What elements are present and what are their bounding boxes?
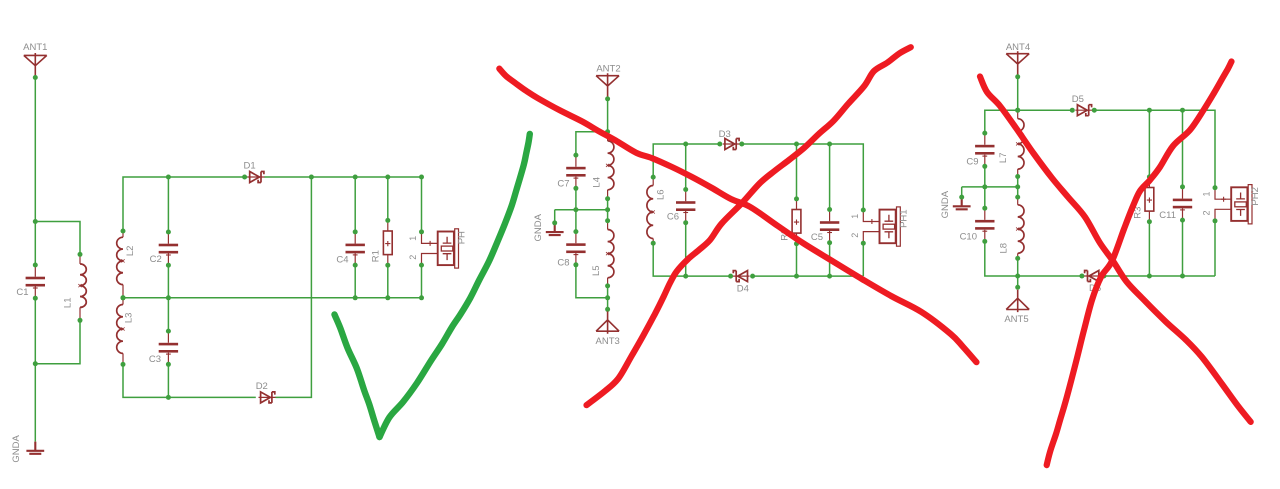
wire C2 bottom	[167, 265, 169, 298]
ground GNDA	[940, 190, 971, 218]
wire C5 bottom	[829, 243, 831, 276]
wire R3 top	[1148, 110, 1150, 177]
wire C8 to bottom node	[576, 265, 608, 298]
svg-text:C1: C1	[16, 287, 28, 298]
junction L7 L8 node	[1015, 184, 1020, 189]
wire ANT2 down	[607, 97, 609, 132]
wire to C7	[576, 132, 608, 155]
wire jack branch upper	[421, 177, 423, 232]
svg-text:D3: D3	[719, 129, 731, 140]
svg-text:C7: C7	[557, 179, 569, 190]
antenna ANT2	[596, 63, 621, 96]
wire bottom rail to D6	[1018, 275, 1083, 277]
capacitor C1	[16, 263, 45, 301]
svg-text:L2: L2	[125, 246, 136, 257]
svg-text:L5: L5	[591, 265, 602, 276]
svg-text:2: 2	[408, 255, 418, 260]
wire L5 to ANT3	[607, 286, 609, 309]
inductor L2	[117, 229, 136, 301]
inductor L5	[591, 218, 614, 288]
svg-text:C4: C4	[336, 254, 348, 265]
wire C3 bottom	[167, 364, 169, 397]
wire loop right side lower	[862, 244, 864, 276]
wire top to C9	[985, 110, 1018, 133]
wire R1 bottom	[387, 265, 389, 298]
diode D6	[1079, 271, 1106, 295]
svg-text:C9: C9	[966, 156, 978, 167]
wire bottom rail right of D6	[1103, 275, 1215, 277]
capacitor C5	[811, 207, 839, 245]
svg-text:D2: D2	[256, 381, 268, 392]
wire R3 bottom	[1148, 222, 1150, 276]
diode D3	[717, 129, 744, 149]
wire R2 top	[796, 144, 798, 199]
wire C11 top	[1182, 110, 1184, 187]
svg-text:ANT5: ANT5	[1004, 314, 1028, 325]
wire loop top left of D3	[653, 144, 720, 177]
capacitor C3	[149, 329, 178, 367]
wire bottom rail left of D2	[123, 364, 256, 397]
junction dots ANT3 net	[605, 295, 610, 312]
svg-text:C3: C3	[149, 354, 161, 365]
inductor L3	[117, 295, 135, 367]
wire loop top right side	[742, 144, 864, 210]
wire to GNDA c3	[961, 187, 963, 197]
wire to GNDA	[554, 210, 556, 223]
capacitor C7	[557, 153, 585, 191]
wire C6 top	[685, 144, 687, 190]
svg-text:1: 1	[408, 236, 418, 241]
capacitor C4	[336, 229, 365, 267]
junction L4 L5 node	[605, 207, 610, 212]
junction dots top rail	[166, 175, 424, 180]
resistor R1	[371, 218, 392, 268]
junction dots top rail c3	[1015, 108, 1185, 113]
wire right side lower c3	[1214, 221, 1216, 276]
svg-text:GNDA: GNDA	[940, 190, 951, 218]
junction dot bottom rail	[166, 395, 171, 400]
wire C2 top	[167, 177, 169, 232]
svg-text:L1: L1	[63, 298, 74, 309]
svg-text:C11: C11	[1159, 210, 1176, 221]
wire top rail right side	[1094, 110, 1215, 188]
capacitor C2	[150, 230, 178, 268]
svg-text:L6: L6	[656, 189, 667, 200]
wire L7 to L8	[1017, 177, 1019, 198]
svg-text:GNDA: GNDA	[533, 213, 544, 241]
wire C3 top	[167, 298, 169, 331]
wire loop bottom left of D4	[653, 243, 731, 276]
svg-text:C8: C8	[557, 258, 569, 269]
svg-text:L7: L7	[998, 153, 1009, 164]
wire C11 bottom	[1182, 220, 1184, 276]
phone jack PH	[408, 229, 468, 268]
wire top rail left of D1	[123, 177, 248, 231]
diode D2	[256, 381, 276, 403]
junction C9 C10 node	[982, 184, 987, 189]
wire gnd tap row	[555, 209, 608, 211]
junction C7 C8 node	[573, 207, 578, 212]
svg-text:D5: D5	[1072, 94, 1084, 105]
resistor R3	[1133, 174, 1154, 224]
svg-text:D4: D4	[737, 284, 749, 295]
red X stroke over middle circuit ascending	[587, 47, 911, 405]
inductor L6	[647, 175, 667, 246]
capacitor C6	[667, 187, 696, 225]
red X stroke over right circuit ascending	[1047, 62, 1232, 466]
green check mark up stroke	[380, 134, 530, 437]
antenna ANT1	[23, 42, 47, 76]
diode D4	[728, 271, 755, 295]
capacitor C8	[557, 229, 585, 269]
svg-text:C6: C6	[667, 212, 679, 223]
svg-text:ANT3: ANT3	[596, 336, 620, 347]
diode D1	[242, 160, 265, 182]
svg-text:ANT4: ANT4	[1006, 42, 1030, 53]
wire node to L1 top	[35, 222, 80, 255]
capacitor C9	[966, 131, 994, 169]
inductor L4	[592, 129, 614, 201]
svg-text:L4: L4	[592, 177, 603, 188]
wire C5 top	[829, 144, 831, 210]
wire top rail right of D1	[265, 176, 422, 178]
svg-text:ANT2: ANT2	[596, 63, 620, 74]
wire R1 top	[387, 177, 389, 220]
wire C9 to C10	[984, 166, 986, 208]
wire bottom rail and riser	[276, 177, 312, 397]
wire gnd tap row c3	[962, 186, 1018, 188]
svg-text:PH: PH	[457, 231, 468, 244]
capacitor C10	[960, 206, 995, 244]
inductor L1	[63, 252, 87, 323]
wire ANT4 down	[1017, 75, 1019, 110]
svg-text:R1: R1	[371, 250, 382, 262]
green check mark down stroke	[335, 315, 380, 438]
svg-text:C2: C2	[150, 254, 162, 265]
junction dots loop top rail	[683, 142, 832, 147]
junction dots bottom rail c3	[1147, 274, 1185, 279]
ground GNDA	[533, 213, 564, 241]
wire C1 to bottom node	[34, 298, 36, 364]
junction dots ANT5 net	[1015, 274, 1020, 290]
wire C6 bottom	[685, 223, 687, 276]
wire middle rail	[123, 297, 422, 299]
wire bottom node to L1 bottom	[35, 320, 80, 363]
wire C4 top	[354, 177, 356, 232]
diode D5	[1070, 94, 1097, 116]
svg-text:PH2: PH2	[1250, 187, 1261, 205]
wire to ground	[34, 364, 36, 442]
phone jack PH2	[1202, 185, 1262, 224]
wire ANT1 to node	[34, 77, 36, 222]
red X stroke over right circuit descending	[980, 77, 1251, 422]
svg-text:1: 1	[850, 214, 860, 219]
antenna ANT5	[1004, 290, 1029, 326]
phone jack PH1	[850, 207, 910, 246]
capacitor C11	[1159, 184, 1192, 222]
wire R2 bottom	[796, 244, 798, 276]
svg-text:D1: D1	[244, 160, 256, 171]
junction ANT4 pin	[1015, 74, 1020, 79]
wire C7 to C8	[575, 188, 577, 231]
wire C4 bottom	[354, 265, 356, 298]
wire node to C1	[34, 222, 36, 266]
svg-text:GNDA: GNDA	[11, 435, 22, 463]
svg-text:1: 1	[1202, 191, 1212, 196]
svg-text:C5: C5	[811, 232, 823, 243]
junction dots ANT1 net	[33, 75, 38, 224]
wire jack branch lower	[421, 265, 423, 298]
junction ANT2 pin	[605, 96, 610, 101]
junction dots middle rail	[166, 295, 424, 300]
red X stroke over middle circuit descending	[499, 69, 976, 363]
svg-text:L3: L3	[124, 313, 135, 324]
wire top rail to D5	[1018, 109, 1072, 111]
wire C10 to bottom rail	[985, 241, 1018, 276]
antenna ANT3	[596, 311, 620, 347]
svg-text:C10: C10	[960, 232, 977, 243]
svg-text:PH1: PH1	[898, 209, 909, 227]
antenna ANT4	[1006, 42, 1030, 74]
svg-text:ANT1: ANT1	[23, 42, 47, 53]
svg-text:2: 2	[1202, 210, 1212, 215]
wire L4 to L5	[607, 199, 609, 221]
inductor L8	[999, 195, 1024, 261]
junction dots loop bottom rail	[683, 274, 832, 279]
svg-text:2: 2	[850, 233, 860, 238]
inductor L7	[998, 108, 1024, 179]
svg-text:L8: L8	[999, 243, 1010, 254]
ground GNDA	[11, 435, 44, 463]
junction bottom node	[33, 361, 38, 366]
wire L8 to ANT5	[1017, 258, 1019, 287]
wire loop bottom right of D4	[753, 275, 864, 277]
resistor R2	[780, 196, 801, 246]
